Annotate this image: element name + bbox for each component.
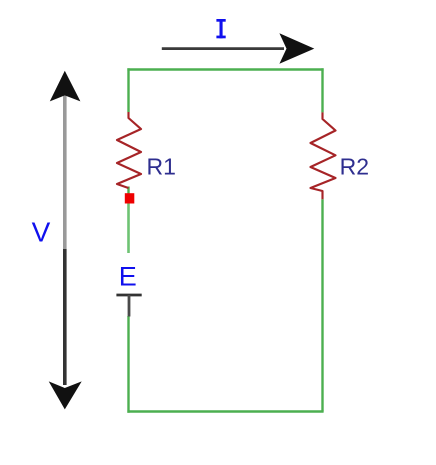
voltage arrow V shaft lower	[63, 249, 67, 385]
wire right upper	[321, 68, 323, 112]
current arrow I head	[279, 33, 314, 64]
wire left lower	[127, 316, 129, 413]
svg-text:R2: R2	[340, 153, 369, 179]
svg-text:E: E	[119, 261, 137, 291]
svg-text:R1: R1	[147, 154, 176, 180]
node A (red square junction)	[125, 193, 135, 203]
battery E lead	[128, 295, 131, 317]
wire left upper	[127, 68, 129, 112]
battery E plate	[116, 294, 141, 297]
wire stub below R1	[127, 187, 129, 195]
current arrow I shaft	[162, 47, 284, 50]
wire bottom	[127, 410, 323, 412]
voltage arrow V head bottom	[49, 381, 82, 409]
resistor R1	[117, 112, 141, 188]
wire right lower	[321, 199, 323, 411]
label I	[216, 19, 225, 38]
wire top	[127, 68, 323, 70]
svg-text:V: V	[32, 217, 51, 248]
voltage arrow V shaft upper	[63, 95, 67, 249]
wire node A to E	[127, 203, 130, 253]
voltage arrow V head top	[50, 71, 81, 102]
resistor R2	[311, 112, 336, 199]
